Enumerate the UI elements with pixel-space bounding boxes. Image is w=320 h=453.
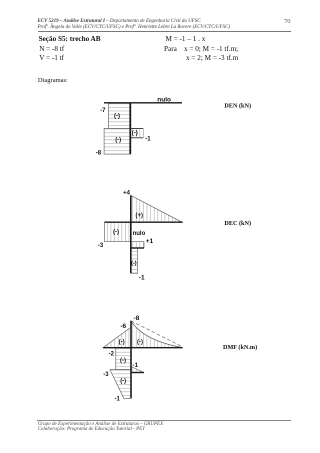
svg-text:-3: -3 — [103, 372, 109, 378]
DEN cantilever box -1 — [130, 128, 143, 138]
DEC triangle +4 — [131, 195, 182, 222]
svg-text:-1: -1 — [139, 274, 145, 281]
header rule — [38, 30, 291, 33]
DMF cantilever axis — [131, 372, 144, 374]
footer line 2 — [38, 427, 145, 432]
DEN rect -8 — [104, 128, 130, 154]
svg-text:(-): (-) — [120, 358, 126, 364]
svg-text:(-): (-) — [114, 113, 120, 119]
svg-text:-7: -7 — [100, 108, 106, 114]
DEN rect -7 — [108, 103, 130, 129]
svg-text:-1: -1 — [133, 363, 139, 369]
N line — [39, 45, 64, 53]
svg-text:-1: -1 — [115, 396, 121, 402]
svg-text:(-): (-) — [132, 131, 138, 137]
DMF cantilever triangle -1 — [131, 367, 144, 373]
svg-text:-6: -6 — [120, 323, 126, 330]
page number 70 — [284, 18, 291, 25]
svg-text:DMF (kN.m): DMF (kN.m) — [223, 344, 257, 351]
svg-text:(-): (-) — [131, 261, 137, 267]
svg-text:(-): (-) — [113, 230, 119, 236]
footer line 1 — [38, 422, 163, 427]
header line 1 — [38, 19, 201, 24]
DEN column axis — [129, 103, 131, 154]
svg-text:(-): (-) — [120, 378, 126, 384]
svg-text:(-): (-) — [119, 339, 125, 345]
Diagramas — [38, 77, 68, 84]
header line 2 — [38, 25, 231, 30]
DMF column trapezoid -3 to -1 — [110, 370, 131, 399]
DMF column rect -2 — [116, 348, 131, 370]
DEC beam axis — [105, 221, 183, 223]
DMF beam right curve -8 — [131, 321, 182, 348]
svg-text:-3: -3 — [98, 243, 104, 249]
DEC cantilever axis — [131, 247, 144, 249]
svg-text:DEN (kN): DEN (kN) — [224, 103, 251, 110]
DEC column rect -1 — [131, 248, 138, 273]
DMF beam left triangle -6 — [103, 327, 131, 348]
svg-text:-2: -2 — [109, 352, 115, 358]
svg-text:+4: +4 — [123, 191, 131, 197]
DEC column axis — [130, 195, 132, 273]
DMF beam axis — [103, 347, 183, 349]
svg-text:(-): (-) — [137, 339, 143, 345]
svg-text:(-): (-) — [115, 137, 121, 143]
svg-text:-8: -8 — [134, 315, 140, 322]
svg-text:nulo: nulo — [133, 231, 146, 237]
svg-text:-1: -1 — [145, 137, 151, 143]
V line — [39, 54, 64, 62]
x=2 line — [186, 54, 238, 62]
DMF column axis — [130, 321, 132, 398]
svg-text:nulo: nulo — [157, 97, 171, 104]
svg-text:-8: -8 — [96, 151, 102, 157]
svg-text:+1: +1 — [146, 238, 154, 245]
DMF dashed chord — [131, 321, 183, 347]
DEC rect -3 — [105, 222, 131, 241]
svg-text:DEC (kN): DEC (kN) — [224, 220, 251, 227]
Para line — [164, 45, 238, 53]
DEC cantilever rect +1 — [131, 242, 144, 248]
DEN beam axis (nulo) — [104, 102, 182, 104]
section title — [39, 35, 101, 43]
equation M — [166, 35, 206, 43]
footer rule — [37, 419, 291, 422]
svg-text:(+): (+) — [136, 213, 144, 219]
